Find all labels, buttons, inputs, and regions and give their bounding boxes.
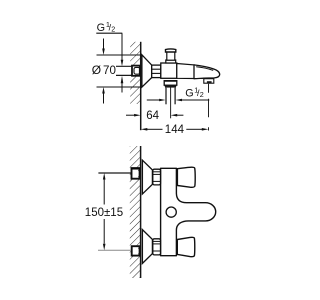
svg-text:G: G: [185, 88, 193, 100]
top wall square nut: [131, 168, 140, 179]
bottom union nut (banded): [153, 239, 161, 255]
wall (hatched section, plan view): [130, 146, 141, 278]
faucet body: [161, 63, 177, 78]
union nut (banded): [152, 65, 161, 78]
svg-text:Ø: Ø: [92, 63, 101, 77]
wall union square nut: [132, 66, 140, 76]
svg-text:70: 70: [103, 64, 116, 77]
svg-text:144: 144: [165, 124, 185, 136]
dimension 144: [141, 124, 209, 136]
shower outlet under body: collar, chamfer, pipe: [164, 81, 177, 105]
top S-union: escutcheon cone: [142, 160, 152, 194]
svg-text:2: 2: [200, 90, 204, 99]
svg-text:G: G: [97, 22, 105, 34]
arrow up to pipe bottom edge: [121, 76, 124, 93]
wall face line: [140, 146, 142, 278]
svg-text:150±15: 150±15: [85, 207, 123, 219]
wall face line / dimension extension line: [140, 42, 142, 130]
top handle: [177, 167, 195, 187]
bottom S-union: escutcheon cone: [142, 230, 152, 264]
top union nut (banded): [153, 169, 161, 185]
escutcheon cone (side view): [142, 55, 152, 87]
leader arrow down to pipe top edge: [121, 33, 124, 66]
spout root block: [177, 64, 194, 79]
diverter knob on top: [166, 49, 176, 63]
spout: [194, 65, 220, 83]
Ø70 arrows: [102, 39, 105, 104]
svg-text:64: 64: [146, 110, 159, 122]
bottom handle: [177, 237, 194, 256]
label G 1/2 (top): [96, 20, 122, 34]
outlet centerline: [170, 88, 172, 119]
Ø70 dimension extension lines: [97, 54, 142, 56]
supply pipe through wall (G 1/2 nipple): [116, 66, 133, 75]
faucet body (plan view): [161, 168, 216, 255]
bottom wall square nut: [132, 246, 140, 255]
diverter cap circle: [166, 207, 176, 217]
dimension 150±15: [85, 173, 131, 250]
wall (hatched section, side view): [130, 42, 140, 104]
dimension 64: [126, 110, 183, 122]
svg-text:2: 2: [111, 24, 115, 33]
dashed projection line from spout outlet: [208, 84, 210, 131]
label G 1/2 (lower, spout) with arrows on outlet pipe: [147, 85, 210, 101]
